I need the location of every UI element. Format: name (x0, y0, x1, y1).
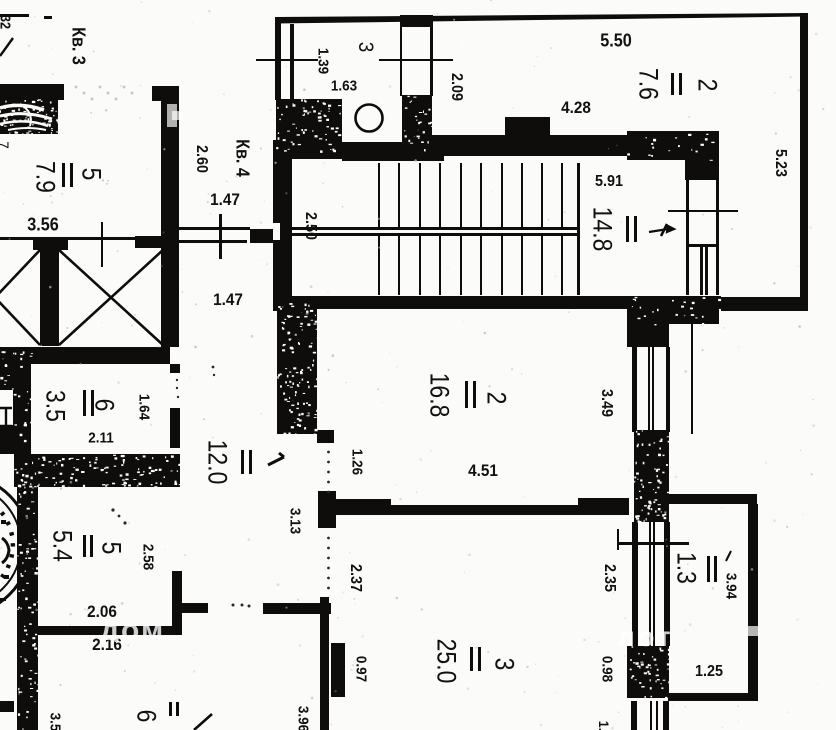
block under closet (687, 309, 719, 324)
top outer wall (slanted) (275, 13, 807, 24)
closet double b (705, 247, 708, 295)
radiator symbol (0, 408, 12, 426)
win3 jamb a (631, 701, 637, 730)
label 3 (353, 42, 377, 53)
thin line x691 (691, 324, 693, 434)
window wall L-block (627, 296, 719, 324)
label 1.39 (315, 48, 332, 74)
stairwell door notch (273, 223, 280, 240)
closet left line (686, 180, 689, 295)
label 3.56 (27, 215, 59, 236)
label 5.4 (47, 530, 78, 562)
label 5 (96, 542, 127, 555)
room3 top wall mid (391, 505, 578, 515)
door opening dots (111, 366, 330, 608)
win2 jamb a (632, 522, 638, 646)
label 4.28 (561, 98, 591, 118)
label 4.51 (468, 461, 498, 481)
label 3 (489, 658, 520, 671)
label 3.5 (40, 390, 71, 422)
area underline marks (62, 163, 65, 187)
left column edge (0, 425, 13, 454)
entry wall body (161, 100, 179, 347)
entry wall head (152, 86, 179, 101)
label 2.09 (447, 73, 465, 101)
top-left dash (44, 16, 52, 19)
door dim line (219, 214, 222, 259)
top-left wall block band (0, 84, 64, 100)
label 1.25 (695, 663, 723, 681)
partition top black (400, 15, 433, 27)
label 7.6 (633, 68, 664, 100)
label 12.0 (202, 440, 233, 485)
label 2.58 (140, 544, 157, 570)
dim line top b (379, 59, 453, 61)
partition bottom black (402, 95, 432, 151)
balcony3 inner line (290, 24, 294, 99)
room3 top wall east (578, 498, 629, 515)
label 2.11 (88, 430, 114, 447)
window wall low block (627, 646, 669, 698)
stairwell left wall (273, 140, 292, 311)
label 2.37 (346, 564, 364, 592)
window wall upper (627, 324, 669, 347)
hall wall east (263, 603, 331, 614)
win1 line b (652, 347, 654, 432)
room3 left wall (320, 597, 329, 730)
room6 wall piece top (170, 364, 180, 373)
elevator shaft right with X (59, 250, 163, 345)
thin line above shafts (0, 237, 163, 240)
watermark lightening (100, 620, 184, 642)
label 1.47 (213, 290, 243, 310)
label 1.3 (671, 552, 702, 584)
room6 wall piece bottom (170, 408, 180, 448)
label 3.94 (723, 573, 740, 599)
stair top wall left (289, 142, 432, 159)
balcony bottom wall (668, 693, 758, 701)
label 3.49 (597, 389, 615, 417)
wall seg b (135, 236, 163, 248)
corridor wall foot (317, 430, 334, 443)
closet double a (700, 247, 703, 295)
window wall mid block (634, 430, 669, 522)
stair top wall west (432, 135, 627, 156)
left wall column (17, 480, 38, 730)
band under shafts (30, 347, 170, 364)
label 1. (596, 721, 612, 730)
room3 pier block (331, 643, 345, 697)
elevator shaft left with X (0, 250, 40, 345)
win1 jamb b (666, 347, 670, 432)
label 6 (131, 710, 162, 723)
top-left edge line (0, 14, 29, 17)
speckle noise on textured walls (0, 96, 721, 730)
label 7.9 (30, 161, 61, 193)
dim line top a (256, 59, 318, 61)
partition line a (400, 24, 402, 96)
wall seg a (33, 239, 68, 250)
stair treads (378, 163, 380, 227)
label 25.0 (431, 639, 462, 684)
dim tick v (617, 529, 619, 550)
closet divider (686, 244, 719, 247)
hallway number 1 stroke (268, 453, 284, 465)
door bottom line (175, 240, 247, 243)
win3 line a (650, 701, 652, 730)
win1 jamb a (632, 347, 637, 432)
label 2.35 (600, 564, 618, 592)
label 16.8 (424, 373, 455, 418)
room1 dim line (668, 210, 738, 212)
shaft divider wall (40, 241, 59, 346)
top-left wall block body (0, 99, 58, 134)
hall vert wall (172, 571, 182, 635)
balcony3 left wall line (275, 17, 281, 100)
left column top (0, 347, 31, 390)
wc left wall block (276, 99, 342, 151)
win2 line a (649, 522, 651, 646)
label 6 (89, 399, 120, 412)
hall bar (180, 603, 208, 613)
label 5.50 (600, 31, 632, 52)
label 14.8 (587, 207, 618, 252)
wall 2.06 solid (35, 626, 115, 635)
label 7 (0, 141, 12, 149)
gray cross watermark on wall (167, 104, 177, 127)
label 1.47 (210, 190, 240, 210)
label 2 (692, 79, 723, 92)
stair bottom wall (289, 296, 721, 309)
door wall seg (250, 229, 277, 243)
label 0.97 (353, 656, 370, 682)
terrace bottom wall (721, 297, 806, 311)
room3 top wall west (332, 499, 391, 515)
dim line 3.56 (101, 222, 103, 267)
bottom left bar (0, 701, 14, 712)
label 3.5 (47, 713, 64, 730)
partial glyph bottom (194, 714, 212, 730)
corridor wall column (277, 300, 317, 434)
label 2.06 (87, 602, 117, 622)
door top line (175, 227, 250, 230)
toilet bowl circle (356, 105, 383, 132)
label 1.63 (331, 78, 357, 95)
corner diagonal top-left (0, 38, 13, 56)
dim tick h (617, 542, 689, 545)
win2 line b (653, 522, 655, 646)
stamp letters (0, 511, 15, 601)
label Кв. 4 (232, 139, 253, 177)
label 1.64 (136, 394, 153, 420)
label 3.13 (287, 508, 304, 534)
label 2 (481, 392, 512, 405)
white streaks in top-left block (0, 104, 52, 130)
label Кв. 3 (68, 27, 89, 65)
balcony top wall (669, 494, 757, 504)
label 5 (76, 168, 107, 181)
label 5.23 (771, 149, 789, 177)
right outer wall (800, 13, 808, 311)
balcony right wall (748, 504, 758, 698)
closet top wall (685, 131, 719, 180)
stamp arcs bottom-left (0, 475, 30, 615)
win1 line a (648, 347, 650, 432)
stair wall notch (505, 117, 550, 135)
room1 number arrow (649, 224, 674, 236)
win3 line b (656, 701, 658, 730)
win2 jamb b (664, 522, 670, 646)
partition line b (430, 24, 433, 96)
wall 2.06 faded (115, 626, 172, 635)
label 5.91 (595, 173, 623, 191)
wc bottom wall (342, 147, 444, 161)
win3 jamb b (663, 701, 669, 730)
label 32 (0, 15, 14, 29)
label 2.16 (92, 635, 122, 655)
apostrophe near 3.94 (726, 551, 731, 561)
label 1.26 (349, 449, 366, 475)
label 2.50 (301, 212, 319, 240)
label 0.98 (599, 656, 616, 682)
left column mid (13, 390, 31, 454)
closet right line (716, 180, 719, 295)
stair top wall east (627, 131, 717, 160)
hall corner block (318, 491, 336, 528)
label 3.96 (295, 706, 312, 730)
room6 bottom band (14, 454, 180, 487)
label 2.60 (192, 145, 210, 173)
